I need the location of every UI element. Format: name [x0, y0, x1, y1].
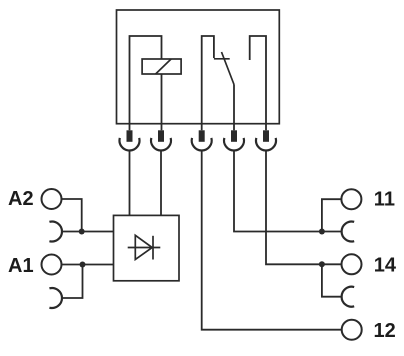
wire pin3 down to terminal 12 [202, 151, 342, 330]
socket below A1 + bracket [49, 288, 62, 308]
socket for 14 [342, 287, 355, 307]
svg-text:14: 14 [374, 254, 397, 276]
socket 5 [256, 138, 276, 151]
pin 4 plug [231, 130, 237, 142]
moving contact (NO) [222, 52, 235, 85]
wire pin2 to rectifier box [160, 151, 162, 216]
rectifier box [114, 215, 180, 280]
wire A2 to rectifier [62, 199, 114, 232]
svg-text:A1: A1 [8, 255, 34, 277]
socket for 11 [342, 222, 355, 242]
wire pin1 to rectifier box [129, 151, 131, 216]
terminal 14 circle [342, 254, 362, 274]
wire coil to pin 2 [161, 74, 163, 130]
socket 3 [192, 138, 212, 151]
socket 1 [120, 138, 140, 151]
junction A1 [80, 262, 86, 268]
wire pin1 up-and-over bracket to coil [130, 36, 162, 130]
diode [128, 235, 161, 259]
junction 14 [319, 261, 325, 267]
terminal 12 circle [342, 320, 362, 340]
pin 5 plug [263, 130, 269, 142]
wire A1 to rectifier [62, 264, 114, 266]
pin 2 plug [158, 130, 164, 142]
junction A2 [79, 229, 85, 235]
socket below A2 [49, 222, 62, 242]
wire pin4 to terminal 11 row [234, 151, 341, 232]
relay coil [142, 59, 181, 74]
socket 2 [151, 138, 171, 151]
terminal 11 circle [341, 189, 361, 209]
wire pin3 up to fixed contact [202, 36, 214, 130]
relay module outline [117, 10, 280, 124]
junction 11 [319, 229, 325, 235]
terminal A1 circle [42, 255, 62, 275]
svg-text:A2: A2 [8, 188, 34, 210]
socket 4 [224, 138, 244, 151]
svg-text:12: 12 [374, 320, 396, 342]
wire stub bracket to pin 5 [250, 36, 266, 130]
svg-text:11: 11 [374, 189, 395, 211]
fixed contact tick [214, 58, 230, 60]
bracket 14 to socket [322, 264, 342, 296]
pin 3 plug [199, 130, 205, 142]
bracket 11 to junction [322, 199, 342, 231]
wire pin5 to terminal 14 row [266, 151, 342, 265]
pin 1 plug [127, 130, 133, 142]
terminal A2 circle [42, 189, 62, 209]
wire contact to pin 4 [233, 85, 235, 131]
